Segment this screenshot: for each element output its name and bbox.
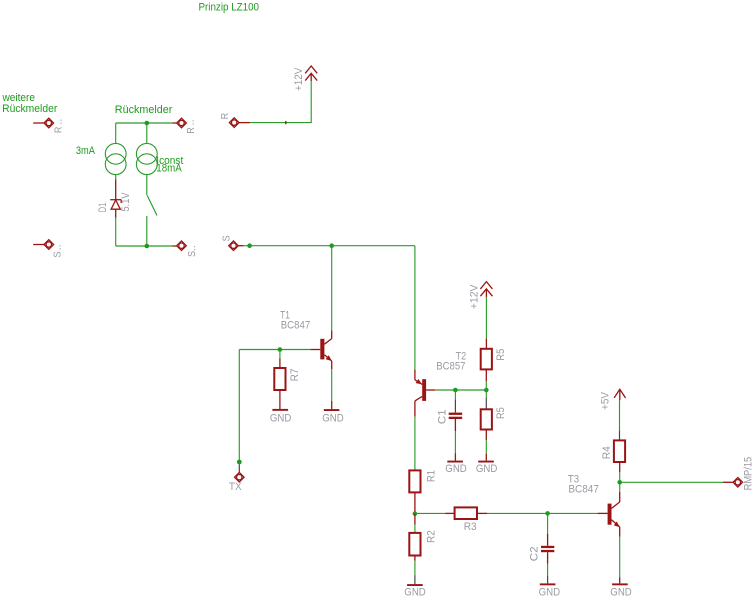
junction TX	[237, 460, 242, 465]
svg-text:18mA: 18mA	[156, 162, 182, 174]
wire main S net horizontal	[238, 245, 415, 247]
svg-text:GND: GND	[539, 587, 561, 599]
junction base R7	[278, 347, 283, 352]
+12V supply symbol (middle)	[469, 282, 493, 310]
wire bottom S net of Rueckmelder	[116, 245, 177, 247]
zener diode D1 5.1V	[97, 192, 132, 218]
junction S net at T1 collector	[329, 243, 334, 248]
svg-text:BC857: BC857	[436, 360, 465, 372]
ground R7	[270, 409, 292, 425]
wire S net corner down to T2 emitter	[414, 246, 416, 380]
resistor R6	[481, 407, 507, 429]
wire node to R3	[415, 512, 455, 514]
wire from 3mA to D1	[115, 175, 117, 200]
svg-text:GND: GND	[610, 587, 632, 599]
wire R7 top	[279, 350, 281, 369]
svg-text:S: S	[187, 250, 198, 257]
wire node to R6	[485, 390, 487, 409]
svg-text:RMP/15: RMP/15	[743, 457, 754, 491]
wire node up to R4	[619, 462, 621, 482]
junction R5 R6	[484, 388, 489, 393]
svg-text:Prinzip LZ100: Prinzip LZ100	[199, 1, 260, 13]
svg-text:3mA: 3mA	[76, 145, 96, 157]
resistor R7	[274, 368, 301, 390]
svg-text:Rückmelder: Rückmelder	[115, 104, 173, 116]
title text	[199, 1, 260, 13]
svg-text:R4: R4	[601, 446, 613, 459]
svg-text:GND: GND	[322, 412, 344, 424]
wire R3 to T3 base	[477, 512, 607, 514]
switch (open contact)	[147, 175, 157, 246]
capacitor C2	[528, 546, 554, 562]
wire base to TX	[238, 350, 240, 461]
pin S (feeds main S net)	[221, 235, 238, 251]
pin R (connector right of Rueckmelder)	[177, 118, 197, 134]
svg-text:R2: R2	[425, 530, 437, 543]
svg-text:BC847: BC847	[281, 319, 311, 331]
wire top R net	[116, 122, 177, 124]
svg-text:R1: R1	[425, 470, 437, 482]
capacitor C1	[436, 409, 462, 424]
svg-text:R5: R5	[495, 349, 507, 361]
svg-text:S: S	[53, 251, 64, 258]
svg-text:C1: C1	[436, 409, 448, 424]
pin S (connector right bottom of Rueckmelder)	[177, 241, 199, 257]
pin TX	[229, 464, 244, 493]
svg-text:GND: GND	[404, 587, 426, 599]
current source Iconst 18mA	[136, 123, 183, 175]
wire R5 bottom to node	[485, 369, 487, 390]
svg-text:D1: D1	[97, 203, 109, 213]
transistor T1 BC847	[280, 309, 332, 369]
wire T1 emitter to GND	[331, 369, 333, 409]
svg-text:GND: GND	[445, 463, 467, 475]
svg-text:GND: GND	[270, 412, 292, 424]
+5V supply symbol	[600, 389, 626, 410]
wire R pin to +12V	[239, 81, 311, 124]
wire T1 base	[239, 349, 310, 351]
svg-text:R3: R3	[464, 521, 477, 533]
pin S weitere (left bottom)	[33, 240, 64, 258]
wire R2 to GND	[414, 556, 416, 585]
svg-text:C2: C2	[528, 546, 540, 561]
wire R7 bottom to GND	[279, 390, 281, 409]
svg-text:BC847: BC847	[568, 484, 599, 496]
resistor R3	[455, 507, 477, 533]
junction S net near pin	[247, 243, 252, 248]
wire collector node to RMP pin	[620, 481, 733, 483]
wire R6 to GND	[485, 430, 487, 461]
ground R2	[404, 584, 426, 599]
svg-text:R: R	[186, 127, 197, 134]
wire T2 collector to R1	[414, 417, 416, 471]
pin R (feeds +12V rail)	[220, 113, 239, 128]
pin R weitere (left top)	[33, 118, 64, 133]
svg-text:R: R	[220, 113, 231, 120]
transistor T2 BC857	[415, 350, 466, 416]
ground C1	[445, 461, 467, 476]
svg-text:TX: TX	[229, 481, 242, 493]
junction C2	[545, 511, 550, 516]
label weitere Rueckmelder	[2, 92, 58, 115]
wire T3 emitter to GND	[619, 537, 621, 584]
resistor R2	[409, 530, 437, 555]
wire T2 base node	[435, 389, 486, 391]
svg-text:+12V: +12V	[293, 67, 305, 91]
ground T3	[610, 583, 632, 598]
svg-text:R5: R5	[495, 407, 507, 419]
svg-text:5.1V: 5.1V	[120, 192, 132, 212]
svg-text:S: S	[221, 235, 232, 242]
junction R1 R2 R3	[413, 511, 418, 516]
wire node to R2	[414, 514, 416, 533]
wire R1 bottom to node	[414, 492, 416, 513]
svg-text:R: R	[54, 127, 65, 134]
wire D1 to bottom S net	[115, 218, 117, 247]
wire S net down to T1 collector	[331, 246, 333, 331]
wire R4 top to +5V	[619, 391, 621, 441]
ground R6	[476, 461, 498, 476]
wire C1 to GND	[454, 419, 456, 461]
svg-text:Rückmelder: Rückmelder	[2, 103, 58, 115]
svg-text:R7: R7	[289, 369, 301, 382]
svg-text:GND: GND	[476, 463, 498, 475]
resistor R5	[481, 349, 507, 370]
junction bottom S net	[145, 244, 150, 249]
junction C1	[453, 388, 458, 393]
wire +12V to R5	[485, 297, 487, 349]
label Rueckmelder	[115, 104, 173, 116]
svg-text:+12V: +12V	[469, 284, 481, 309]
ground T1	[322, 409, 344, 424]
junction top R net	[145, 121, 150, 126]
ground C2	[539, 583, 561, 598]
wire node to C2	[547, 513, 549, 545]
wire T3 collector to node	[619, 482, 621, 492]
current source 3mA	[76, 123, 126, 175]
junction R4 collector out	[617, 480, 622, 485]
+12V supply symbol (top)	[293, 66, 317, 91]
transistor T3 BC847	[568, 474, 620, 537]
wire node to C1	[454, 390, 456, 413]
resistor R1	[409, 470, 437, 492]
wire C2 to GND	[547, 552, 549, 583]
pin RMP/15	[733, 457, 754, 491]
resistor R4	[601, 440, 625, 462]
svg-text:+5V: +5V	[600, 391, 612, 410]
